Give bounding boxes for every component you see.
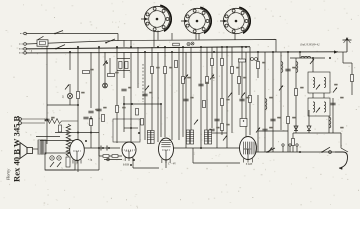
- tube socket base diagram V3: [220, 7, 250, 33]
- trimmer T3: [251, 58, 258, 61]
- resistor R17: [287, 117, 290, 124]
- switch S1 on bus L2: [55, 45, 65, 50]
- wire vertical V313_52: [312, 93, 314, 98]
- wire link mid right: [258, 130, 288, 132]
- IF1 secondary winding: [324, 77, 326, 87]
- mains plug arrow: [339, 166, 343, 169]
- wire vertical V201_31: [200, 47, 202, 148]
- value label v14: [269, 97, 272, 99]
- wire diode leg 1b: [308, 131, 310, 134]
- wire osc link: [124, 127, 138, 129]
- paper speckle texture: [230, 4, 231, 7]
- value label v6: [169, 67, 172, 69]
- wire lamp to rail: [69, 99, 71, 105]
- wire vertical V242_40: [241, 47, 243, 120]
- wire bottom rail mid: [133, 167, 159, 169]
- wire vertical V186_27: [185, 52, 187, 148]
- resistor R20: [292, 139, 295, 146]
- svg-text:Horny: Horny: [6, 169, 11, 181]
- junction at 201,47: [200, 46, 202, 48]
- wire vertical V91_4: [90, 52, 92, 108]
- wire v4 left: [193, 162, 240, 164]
- junction at 183,47: [182, 46, 184, 48]
- wire vertical V341_56: [340, 133, 342, 148]
- variable-adjust arrow A11: [316, 85, 320, 90]
- wire vertical V232_37: [231, 47, 233, 133]
- variable-adjust arrow A16: [268, 148, 272, 153]
- wire vertical V281_47: [280, 52, 282, 130]
- wire vertical V313_51: [312, 58, 314, 72]
- capacitor C10: [330, 103, 335, 105]
- diode D2: [307, 126, 311, 131]
- capacitor C5: [183, 99, 188, 101]
- triode V2 bottom: [122, 142, 136, 161]
- value label v11: [236, 67, 239, 69]
- junction at 161,104: [160, 103, 162, 105]
- junction at 117,47: [116, 46, 118, 48]
- junction at 107,63: [106, 62, 108, 64]
- resistor R26: [221, 59, 224, 66]
- loudspeaker LS: [20, 143, 33, 159]
- variable-adjust arrow A7: [241, 93, 245, 98]
- value label v22: [149, 92, 152, 94]
- wire psu to bus: [84, 147, 120, 149]
- wire vertical V145_16: [144, 52, 146, 140]
- resistor R29: [249, 96, 252, 103]
- wire vertical V124_10: [123, 40, 125, 47]
- resistor R6: [116, 106, 119, 113]
- wire v4 left drop: [192, 148, 194, 163]
- wire vertical V78_3: [77, 46, 79, 172]
- junction under tube C: [133, 159, 135, 161]
- resistor R7: [151, 67, 154, 74]
- value label v27: [277, 117, 280, 119]
- trimmer T2: [191, 42, 194, 45]
- value label v12: [243, 77, 246, 79]
- value label v28: [334, 84, 337, 86]
- fuse G1: [50, 156, 54, 160]
- wire vertical V131_14: [130, 52, 132, 158]
- junction at 132,104: [131, 103, 133, 105]
- rectifier tube V5: [70, 140, 85, 164]
- switch blade before terminal: [321, 147, 330, 153]
- resistor R27 on rail: [103, 155, 109, 158]
- junction at 330,58: [329, 57, 331, 59]
- junction at 242,47: [241, 46, 243, 48]
- IF can box IF1: [308, 72, 330, 93]
- junction at 246,152: [245, 151, 247, 153]
- svg-text:C – 4V: C – 4V: [168, 163, 176, 166]
- wire psu right drop: [98, 148, 100, 170]
- capacitor C15: [83, 117, 88, 119]
- wire vertical V70_1: [69, 52, 71, 70]
- output tube V3: [159, 138, 174, 163]
- IF2 primary winding: [313, 102, 315, 112]
- voltage selector: [66, 157, 70, 167]
- junction at 313,58: [312, 57, 314, 59]
- variable-adjust arrow A13: [333, 88, 337, 93]
- wire vertical V239_39: [238, 58, 240, 95]
- wire vertical V158_19: [157, 31, 159, 40]
- wire vertical V296_49: [295, 58, 297, 133]
- junction at 300,152: [299, 151, 301, 153]
- resistor R25: [211, 59, 214, 66]
- wire vertical V105_7: [104, 52, 106, 88]
- capacitor C2: [96, 109, 101, 111]
- variable-adjust arrow A2: [103, 61, 107, 66]
- svg-text:Rex 40 B W 345 B: Rex 40 B W 345 B: [12, 115, 22, 182]
- junction at 86,141: [85, 140, 87, 142]
- svg-text:Ь KH: Ь KH: [123, 164, 129, 167]
- value label v29: [51, 117, 54, 119]
- coil L1 hatched: [186, 130, 189, 144]
- wire vertical V250_42: [249, 47, 251, 135]
- wire vertical V172_22: [171, 33, 173, 40]
- junction at 131,128: [130, 127, 132, 129]
- value label v20: [103, 107, 106, 109]
- wire vertical V47_0: [46, 46, 48, 144]
- capacitor block Ca: [119, 62, 122, 69]
- junction at 99,148: [98, 147, 100, 149]
- capacitor C9: [270, 119, 275, 121]
- antenna terminal A1: [19, 43, 26, 46]
- resistor R21: [239, 59, 246, 62]
- electrolytic capacitor EC1: [101, 146, 103, 151]
- junction at 201,148: [200, 147, 202, 149]
- fuse G2: [57, 156, 61, 160]
- resistor R8: [164, 67, 167, 74]
- resistor R10: [206, 77, 209, 84]
- antenna coil horizontal: [301, 56, 311, 58]
- variable-adjust arrow A14: [223, 136, 227, 141]
- wire vertical V70_2: [69, 84, 71, 93]
- wire vertical V110_8: [109, 58, 111, 74]
- resistor R3: [173, 43, 180, 46]
- wire agc rail: [47, 104, 78, 106]
- capacitor C1: [88, 111, 93, 113]
- mains switch blades: [50, 162, 61, 167]
- wire top-right corner link: [343, 62, 352, 64]
- coil L2 hatched: [190, 130, 193, 144]
- aux terminal A0: [20, 32, 26, 35]
- wire top-right bus L4: [290, 57, 325, 59]
- wire vertical V175_23: [174, 46, 176, 48]
- wire vertical V293_59: [292, 133, 294, 152]
- wire detector link y133: [212, 132, 227, 134]
- wire main bus L2: [26, 47, 250, 49]
- coil L9 below IF2: [329, 117, 331, 128]
- tube socket base diagram V2: [181, 7, 211, 33]
- variable-adjust arrow A5: [210, 75, 214, 80]
- junction at 91,118.5: [90, 118, 92, 120]
- resistor R18: [295, 89, 298, 96]
- switch S2 on line B: [105, 39, 115, 44]
- mains antenna symbol: [343, 37, 352, 52]
- resistor R11: [221, 99, 224, 106]
- wire vertical V227_36: [226, 47, 228, 148]
- wire vertical V131_13: [130, 40, 132, 47]
- capacitor C3: [121, 89, 126, 91]
- wire cap block top: [117, 58, 130, 60]
- resistor R13: [231, 67, 234, 74]
- wire aerial line A: [26, 33, 118, 35]
- capacitor C14: [214, 119, 219, 121]
- wire vertical V138_15: [137, 47, 139, 88]
- junction at 288,52: [287, 51, 289, 53]
- mains unit box: [45, 153, 75, 170]
- field coil zigzag: [66, 124, 70, 156]
- coil L4 hatched: [208, 130, 211, 144]
- variable-adjust arrow A6: [228, 93, 232, 98]
- resistor R2: [108, 74, 115, 77]
- coil L5: [281, 62, 283, 73]
- junction at 78,132.5: [77, 132, 79, 134]
- wire cap block bottom: [117, 70, 130, 72]
- capacitor C13: [285, 69, 290, 71]
- variable-adjust arrow A12: [316, 108, 320, 113]
- value label v17: [340, 97, 343, 99]
- wire vertical V172_24: [171, 52, 173, 140]
- junction at 124,104: [123, 103, 125, 105]
- capacitor block Cb: [125, 62, 128, 69]
- wire vertical V258_44: [257, 95, 259, 152]
- wire vertical V212_33: [211, 47, 213, 128]
- IF can box IF2: [308, 98, 330, 116]
- wire vertical V154_18: [153, 31, 155, 47]
- value label v10: [226, 124, 229, 126]
- wire mixer link: [124, 103, 161, 105]
- wire vertical V222_35: [221, 47, 223, 135]
- wire bottom mid drop: [132, 158, 134, 168]
- wire vertical V288_48: [287, 52, 289, 152]
- capacitor C12: [262, 129, 267, 131]
- resistor R9: [182, 77, 185, 84]
- capacitor box Cd: [141, 119, 144, 126]
- resistor R12: [221, 124, 224, 131]
- value label v13: [262, 62, 265, 64]
- dial lamp LP1: [67, 93, 72, 98]
- wire vertical V99_6: [98, 47, 100, 156]
- trimmer T1: [187, 43, 190, 46]
- junction at 246,47: [245, 46, 247, 48]
- svg-text:2): 2): [62, 96, 64, 99]
- wire vertical V343_57: [342, 52, 344, 63]
- capacitor C8: [239, 99, 244, 101]
- resistor R4: [77, 92, 80, 99]
- junction at 158,47: [157, 46, 159, 48]
- junction at 70,52: [69, 51, 71, 53]
- wire vertical V246_41: [245, 52, 247, 158]
- coil L3 hatched: [204, 130, 207, 144]
- wire vertical V124_11: [123, 52, 125, 78]
- dial lamp LP2: [103, 83, 108, 88]
- wire vertical V217_34: [216, 47, 218, 148]
- component box above V4: [240, 119, 247, 127]
- tube socket base diagram V1: [141, 5, 171, 31]
- resistor R24: [203, 101, 206, 108]
- wire line B sloped: [26, 40, 276, 52]
- coil L10 hatched: [147, 131, 150, 144]
- wire heater run: [104, 159, 122, 161]
- junction at 222,47: [221, 46, 223, 48]
- wire line A drop: [117, 34, 119, 41]
- capacitor box Cc: [136, 109, 139, 116]
- IF2 secondary winding: [324, 102, 326, 112]
- value label v4: [122, 107, 125, 109]
- resistor R19: [351, 75, 354, 82]
- oscillator coil can outline: [113, 119, 140, 142]
- junction at 214,52: [213, 51, 215, 53]
- wire L3 tail to antenna symbol: [338, 51, 347, 53]
- junction at 165,47: [164, 46, 166, 48]
- terminal on right bus: [329, 151, 332, 154]
- wire vertical V165_21: [164, 47, 166, 137]
- heater terminal circle: [107, 158, 110, 161]
- bus component B1: [282, 144, 284, 152]
- resistor R22: [102, 115, 105, 122]
- wire vertical V329_54: [328, 116, 330, 133]
- wire detector rail: [293, 132, 341, 134]
- electrolytic capacitor EC2: [107, 146, 109, 151]
- wire vertical V333_55: [332, 98, 334, 133]
- wire speaker top 2: [40, 140, 79, 142]
- wire vertical V235_38: [234, 33, 236, 40]
- coil L11 hatched: [151, 131, 154, 144]
- wire vertical V196_29: [195, 33, 197, 40]
- resistor R23: [175, 61, 178, 68]
- value label v24: [205, 82, 208, 84]
- mains switch on right bus: [266, 148, 275, 153]
- value label v5: [156, 67, 159, 69]
- wire bottom right bus: [256, 151, 335, 153]
- wire vertical V273_46: [272, 52, 274, 152]
- wire bottom rail mid2: [165, 160, 167, 168]
- value label v21: [128, 87, 131, 89]
- wire vertical V199_30: [198, 33, 200, 40]
- resistor R14: [238, 77, 241, 84]
- junction at 131,165: [130, 164, 132, 166]
- antenna terminal A2: [19, 48, 26, 51]
- wire bottom rail 1: [99, 155, 122, 157]
- bus component B3: [296, 144, 298, 152]
- resistor R15: [257, 62, 260, 69]
- value label v9: [226, 99, 229, 101]
- wire vertical V324_53: [323, 93, 325, 98]
- wire vertical V179_25: [178, 47, 180, 140]
- capacitor C7: [209, 129, 214, 131]
- wire detector drop: [341, 148, 348, 152]
- junction at 99,47: [98, 46, 100, 48]
- variable-adjust arrow A8: [256, 128, 260, 133]
- wire vertical V300_50: [299, 52, 301, 58]
- triode V2 pins detail: [122, 149, 136, 151]
- wire vertical V191_28: [190, 47, 192, 130]
- arrowhead on bus L3: [334, 50, 338, 53]
- svg-text:+1μ: +1μ: [88, 159, 93, 162]
- svg-text:~: ~: [61, 166, 63, 170]
- mains cable hook: [335, 152, 348, 168]
- resistor R5: [90, 119, 93, 126]
- junction at 258,52: [257, 51, 259, 53]
- capacitor C11: [44, 119, 49, 121]
- value label v2: [115, 72, 118, 74]
- wire vertical V117_9: [116, 47, 118, 143]
- value label v25: [216, 127, 219, 129]
- svg-text:EmU/U85H+42: EmU/U85H+42: [299, 43, 320, 47]
- wire diode leg 1: [308, 110, 310, 126]
- junction at 139,133: [138, 132, 140, 134]
- wire speaker top: [36, 136, 60, 138]
- pickup terminal pair: [19, 118, 45, 125]
- junction at 91,132.5: [90, 132, 92, 134]
- value label v31: [292, 67, 295, 69]
- variable-adjust arrow A9: [279, 86, 283, 91]
- wire af line: [173, 147, 240, 149]
- wire vertical V124_12: [123, 96, 125, 132]
- wire vertical V258_43: [257, 52, 259, 78]
- value label v26: [246, 97, 249, 99]
- value label v23: [190, 97, 193, 99]
- value label v30: [269, 127, 272, 129]
- variable-adjust arrow A3: [145, 86, 149, 91]
- wire psu bottom: [45, 169, 99, 171]
- value label v7: [187, 77, 190, 79]
- junction at 300,52: [299, 51, 301, 53]
- junction at 78,47: [77, 46, 79, 48]
- value label v16: [300, 87, 303, 89]
- wire vertical V265_45: [264, 52, 266, 152]
- junction at 227,47: [226, 46, 228, 48]
- IF1 primary winding: [313, 77, 315, 87]
- wire mixer link drop: [160, 104, 162, 137]
- variable-adjust arrow A1: [65, 85, 69, 90]
- coil L6: [296, 62, 298, 73]
- wire vertical V158_20: [157, 52, 159, 142]
- output transformer TR1: [38, 139, 46, 155]
- tuning gang link (dashed): [142, 64, 144, 102]
- value label v8: [211, 77, 214, 79]
- variable-adjust arrow A10: [310, 59, 314, 64]
- wire vertical V352_58: [351, 63, 353, 95]
- switch on aerial line A: [54, 31, 63, 35]
- wire vertical V183_26: [182, 47, 184, 137]
- variable-adjust arrow A15: [194, 120, 198, 125]
- value label v1: [90, 69, 93, 71]
- wire vertical V91_5: [90, 116, 92, 148]
- resistor R28 on rail: [112, 155, 118, 158]
- diode D1: [294, 126, 298, 131]
- wire speaker link: [17, 149, 20, 151]
- wire vertical V207_32: [206, 47, 208, 140]
- wire speaker stub: [33, 148, 39, 150]
- rectifier/detector tube V4: [240, 137, 257, 163]
- coil L12: [265, 99, 267, 110]
- junction at 273,52: [272, 51, 274, 53]
- wire bus L3: [26, 52, 338, 53]
- svg-text:E KH: E KH: [246, 163, 252, 166]
- bus component B2: [289, 144, 291, 152]
- capacitor C6: [198, 84, 203, 86]
- junction at 145,52: [144, 51, 146, 53]
- capacitor C4: [142, 94, 147, 96]
- junction at 131,47: [130, 46, 132, 48]
- switch box W1: [37, 36, 48, 46]
- value label v19: [95, 109, 98, 111]
- wire avc rail lower: [55, 132, 99, 134]
- junction at 78,105: [77, 104, 79, 106]
- value label v3: [81, 92, 84, 94]
- earth terminal E: [19, 52, 26, 55]
